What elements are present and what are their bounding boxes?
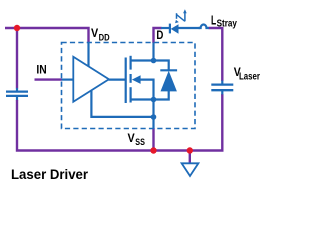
wire: body tie to source junction — [139, 80, 154, 100]
transistor Q1 source stub — [131, 98, 154, 100]
laser diode LD1 triangle — [171, 24, 179, 34]
ground symbol — [182, 163, 199, 176]
laser diode LD1 cathode bar — [169, 24, 171, 34]
wire: node D to laser diode cathode — [161, 27, 170, 29]
node junction: VSS rail (red dot) — [150, 147, 156, 153]
wire: left vertical from supply rail to capacitor C1 — [16, 27, 18, 89]
svg-text:Laser: Laser — [239, 71, 260, 82]
node junction: drain / node D (blue dot) — [151, 58, 157, 64]
wire: node D riser from amplifier box to laser diode — [154, 28, 162, 43]
wire: top-right corner from LStray down to C2 — [209, 28, 223, 81]
wire: body diode anode to source junction — [154, 91, 169, 100]
dashed box: driver IC boundary — [62, 43, 196, 129]
wire: top-left supply rail to VDD — [5, 28, 89, 43]
wire: drain junction to body diode cathode — [154, 61, 169, 71]
wire: op-amp feedback to source node — [91, 91, 153, 117]
capacitor C2 (VLaser) — [211, 81, 233, 95]
svg-text:Laser Driver: Laser Driver — [11, 166, 89, 182]
wire: left vertical below C1, bottom rail, right vertical up to C2 — [17, 94, 222, 151]
transistor Q1 body arrow — [132, 75, 141, 84]
laser light emission arrows — [175, 9, 187, 23]
transistor Q1 gate plate — [125, 58, 127, 104]
transistor Q1 drain stub — [131, 59, 154, 61]
wire: IN blue lead to op-amp — [62, 78, 75, 80]
label LStray — [211, 14, 237, 30]
svg-text:V: V — [91, 26, 98, 40]
svg-text:V: V — [128, 131, 135, 145]
inductor L1 (LStray) — [199, 25, 210, 29]
svg-text:IN: IN — [36, 62, 46, 76]
node junction: ground tap (red dot) — [187, 147, 193, 153]
label VLaser — [234, 65, 260, 82]
wire: VSS drop below dashed box — [152, 128, 154, 151]
wire: op-amp output to gate — [109, 78, 126, 80]
label VSS — [128, 131, 145, 148]
node junction: feedback tap (blue dot) — [151, 114, 157, 120]
diode D1 body-diode triangle — [161, 71, 177, 92]
node junction: source / body / diode (blue dot) — [151, 97, 157, 103]
op-amp U1 (driver amplifier triangle) — [73, 57, 109, 102]
wire: ground stub — [189, 151, 191, 163]
wire: node D blue segment down to drain junction — [152, 43, 154, 61]
wire: IN input lead — [35, 78, 62, 80]
capacitor C1 (left bypass cap) — [6, 88, 28, 101]
svg-text:SS: SS — [135, 137, 145, 148]
wire: source node down through feedback junction to box edge — [152, 100, 154, 129]
transistor Q1 channel segments — [130, 56, 132, 103]
diode D1 cathode bar — [160, 69, 177, 71]
label VDD — [91, 26, 110, 43]
wire: VDD blue lead into op-amp top — [87, 43, 89, 67]
svg-text:DD: DD — [99, 32, 110, 43]
svg-text:Stray: Stray — [217, 19, 238, 30]
svg-text:D: D — [156, 30, 163, 42]
wire: laser diode anode to LStray — [179, 27, 201, 29]
node junction: supply rail / C1 (red dot) — [14, 25, 20, 31]
